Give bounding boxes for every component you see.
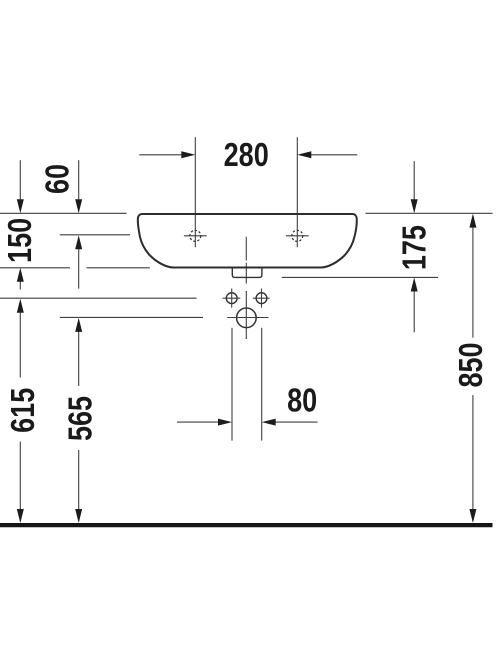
extension line 150 level part b	[87, 267, 150, 269]
dimension 175 lower arrow	[413, 281, 415, 333]
svg-text:175: 175	[397, 225, 433, 270]
svg-text:850: 850	[454, 342, 490, 387]
extension line top level (right of basin)	[366, 212, 493, 214]
dimension 175 upper arrow	[413, 161, 415, 210]
fixing hole right circle	[256, 293, 267, 304]
extension line 615 level	[0, 297, 197, 299]
drain nub	[232, 268, 262, 277]
dimension 615 line lower segment	[19, 442, 21, 522]
extension line 150 level part a	[0, 267, 70, 269]
dimension 60 upper arrow	[78, 160, 80, 210]
fixing hole right cross	[253, 297, 270, 299]
dimension 80 arrow right	[265, 421, 318, 423]
dimension 80 arrow left	[177, 421, 229, 423]
dimension 615 line upper segment	[19, 302, 21, 378]
extension line 565 level	[60, 316, 203, 318]
tap hole right: dashed circle	[292, 230, 303, 241]
dimension 280 extension line right	[296, 137, 298, 247]
dimension 80 extension line left	[231, 328, 233, 441]
tap hole left: cross horizontal	[184, 235, 207, 237]
dimension 280 extension line left	[194, 137, 196, 247]
svg-text:150: 150	[3, 218, 39, 263]
dimension 60 lower arrow	[78, 239, 80, 289]
dimension 850 line upper segment	[472, 217, 474, 338]
svg-text:80: 80	[287, 383, 317, 419]
svg-text:615: 615	[5, 388, 41, 433]
dimension 850 line lower segment	[472, 395, 474, 521]
dimension 565 line upper segment	[78, 321, 80, 386]
svg-text:565: 565	[63, 396, 99, 441]
floor line	[0, 523, 493, 527]
tap hole right: cross horizontal	[286, 235, 309, 237]
dimension 80 extension line right	[261, 328, 263, 441]
svg-text:60: 60	[40, 164, 76, 194]
dimension 565 line lower segment	[78, 450, 80, 521]
extension line 175 level	[282, 276, 438, 278]
dimension 150 upper arrow	[19, 160, 21, 210]
drain circle horizontal tick	[227, 317, 268, 319]
fixing hole left cross	[223, 297, 241, 299]
centerline vertical	[245, 237, 247, 261]
drain circle	[237, 308, 257, 328]
tap hole left: dashed circle	[190, 230, 201, 241]
dimension 280 arrow right	[301, 154, 358, 156]
fixing hole left circle	[226, 293, 237, 304]
dimension 150 lower arrow	[19, 271, 21, 290]
extension line tap-hole level	[60, 234, 130, 236]
dimension 280 arrow left	[139, 154, 192, 156]
svg-text:280: 280	[224, 138, 269, 174]
extension line top level (left of basin)	[0, 212, 127, 214]
basin outline	[138, 214, 357, 268]
